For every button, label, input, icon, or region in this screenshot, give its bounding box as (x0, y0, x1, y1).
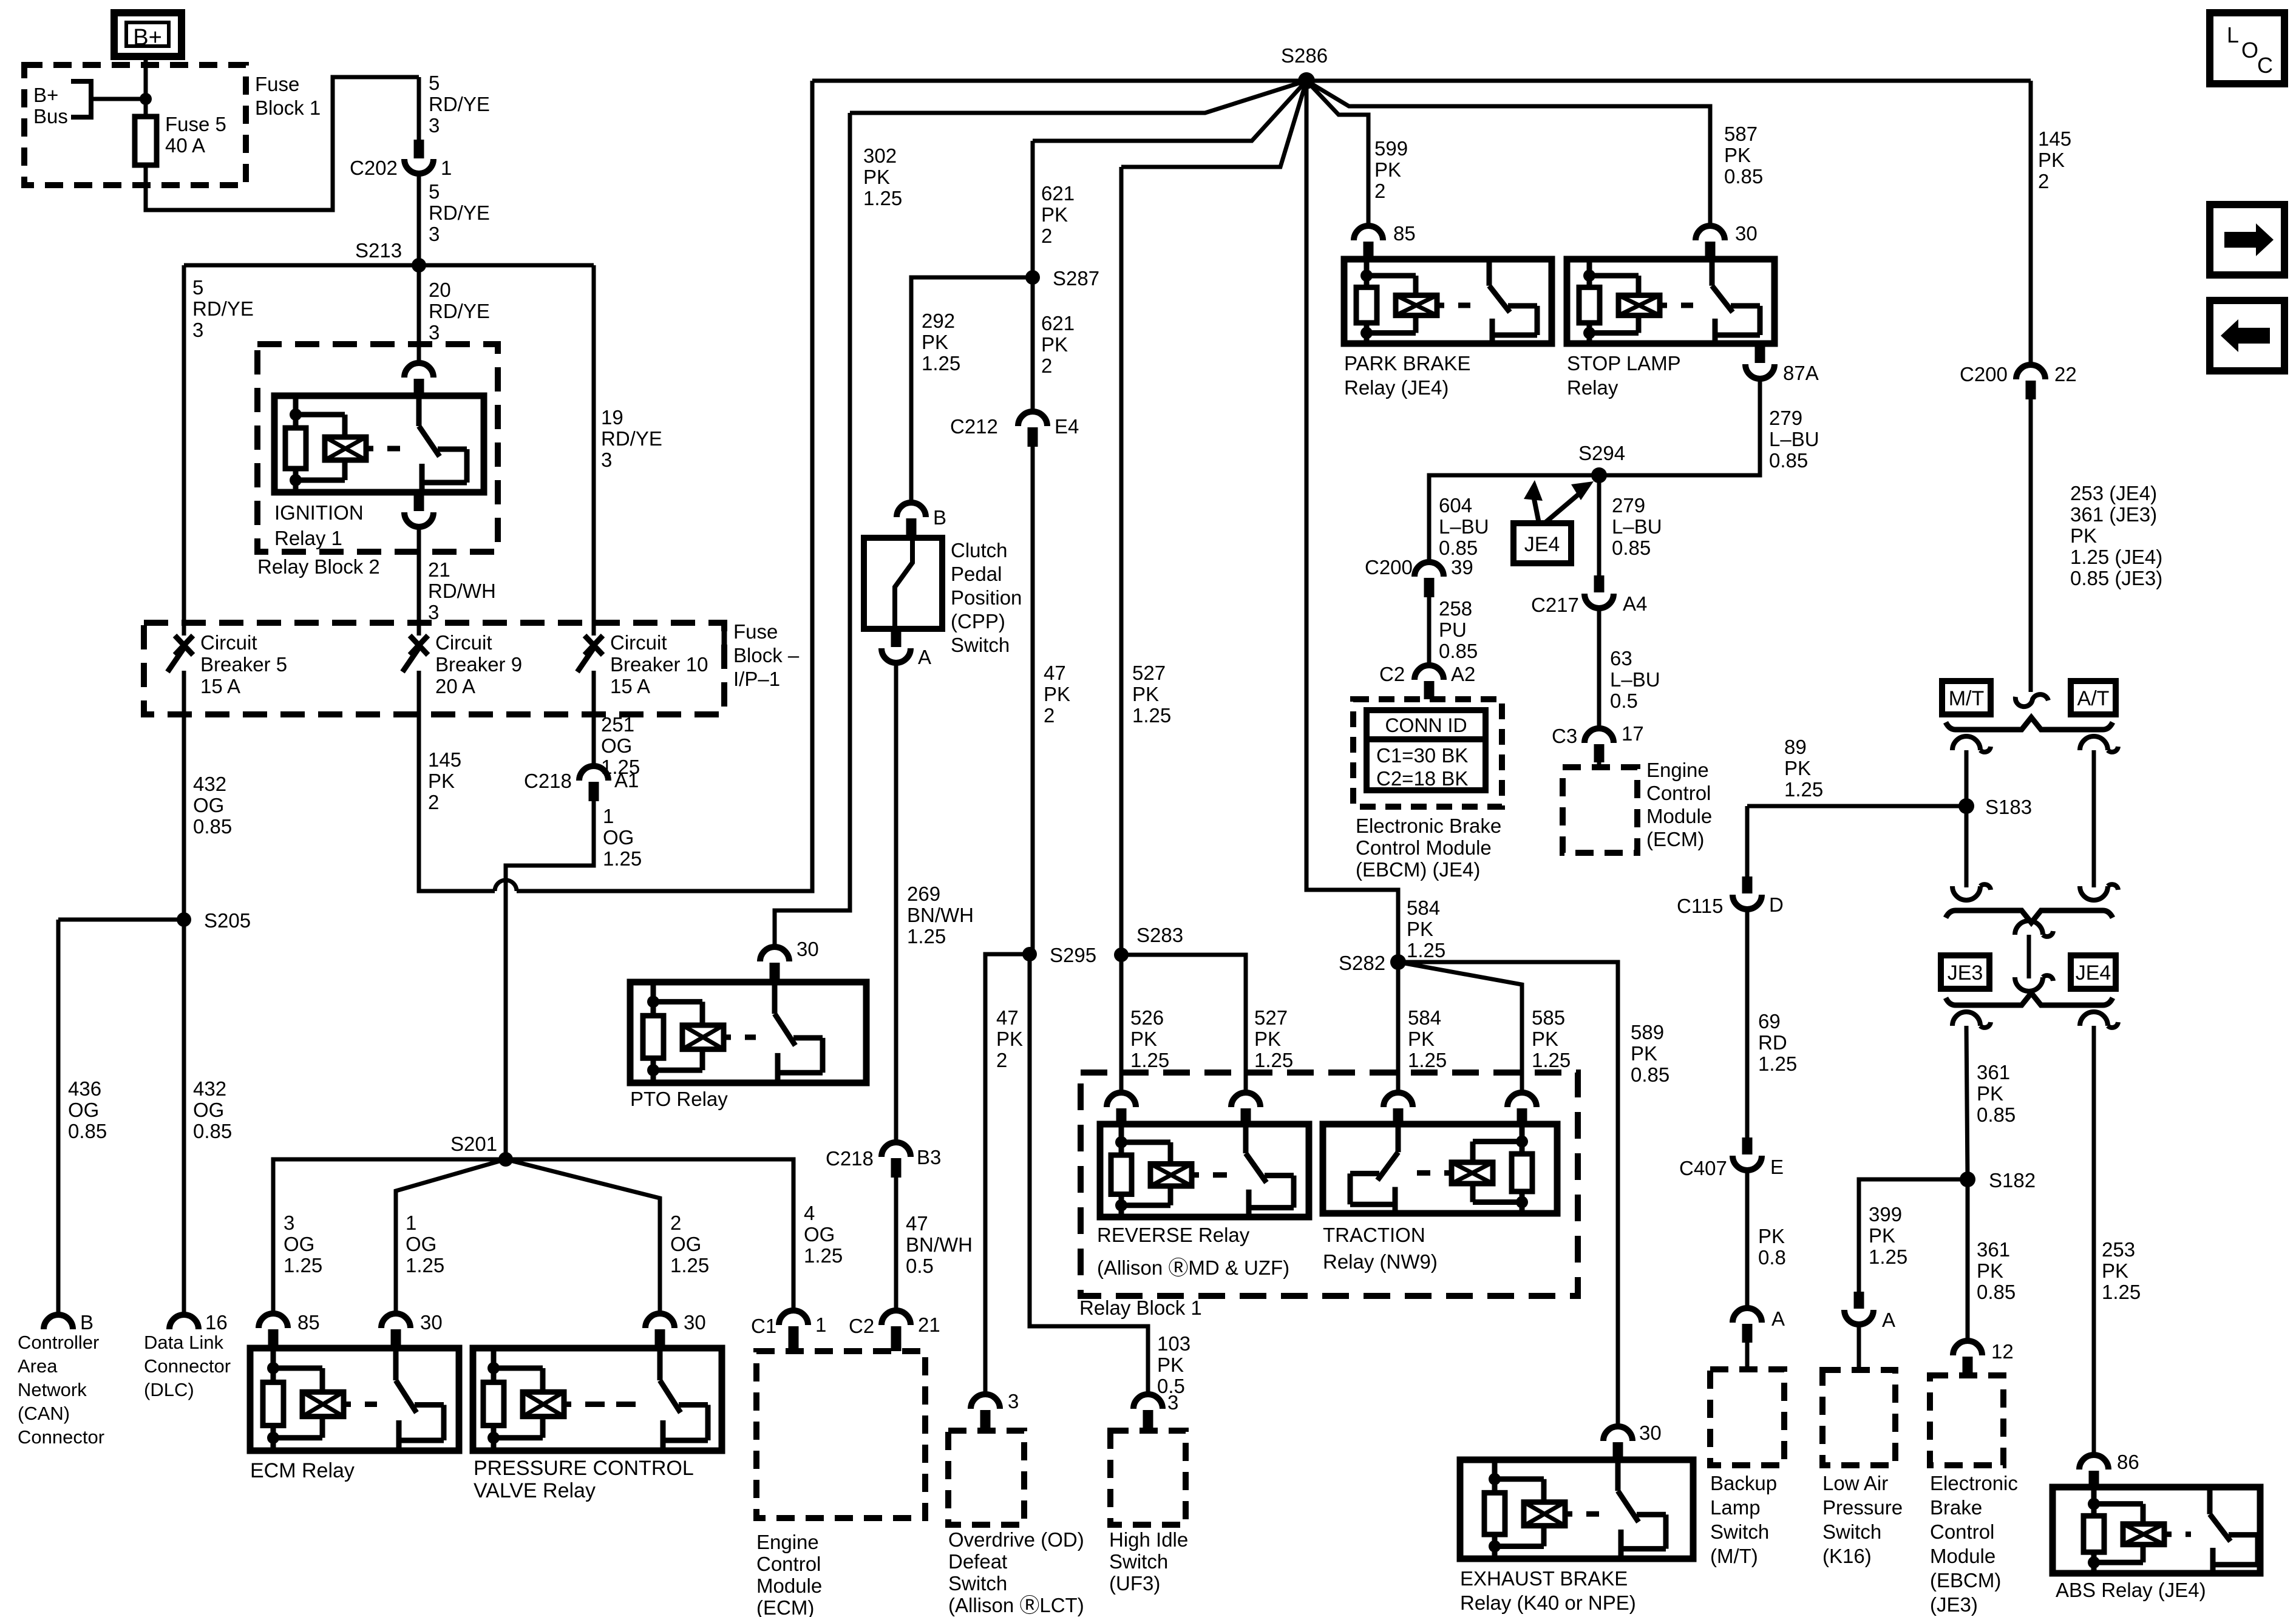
svg-text:Breaker 9: Breaker 9 (435, 653, 522, 676)
svg-text:63: 63 (1610, 647, 1632, 670)
svg-text:PK: PK (1254, 1028, 1281, 1050)
svg-text:1: 1 (406, 1212, 416, 1234)
svg-text:Switch: Switch (948, 1572, 1007, 1595)
wire ignition to CB9 (417, 529, 421, 636)
circuit breaker CB5 (168, 631, 287, 697)
svg-text:PK: PK (1132, 683, 1159, 705)
connector CPP pin A (881, 629, 931, 668)
svg-text:2: 2 (996, 1049, 1007, 1071)
wire C200 22 down (2029, 399, 2033, 692)
node S182 (1960, 1169, 2036, 1192)
connector C2 pin A2 (1379, 663, 1475, 699)
label Backup Lamp Switch (M/T) (1710, 1472, 1777, 1567)
label 621 PK 2 (upper) (1041, 182, 1075, 247)
svg-text:PK: PK (1041, 203, 1068, 226)
connector PCV relay pin 30 (645, 1311, 706, 1348)
svg-text:OG: OG (603, 826, 634, 849)
svg-text:30: 30 (684, 1311, 706, 1334)
svg-text:E: E (1770, 1156, 1784, 1178)
svg-text:47: 47 (996, 1006, 1019, 1029)
svg-text:3: 3 (284, 1212, 294, 1234)
connector C217 pin A4 (1531, 475, 1647, 616)
svg-text:PK: PK (1724, 144, 1751, 166)
legend right arrow box (2210, 205, 2284, 275)
svg-text:Fuse: Fuse (255, 73, 299, 95)
wire low air down (1857, 1326, 1861, 1370)
svg-text:1.25: 1.25 (406, 1254, 444, 1276)
label JE4 box with arrows (1513, 480, 1594, 563)
svg-text:L–BU: L–BU (1610, 668, 1660, 691)
svg-text:C200: C200 (1960, 363, 2008, 385)
svg-text:1.25: 1.25 (1132, 704, 1171, 727)
svg-text:L–BU: L–BU (1769, 428, 1819, 450)
svg-text:High Idle: High Idle (1109, 1528, 1188, 1551)
svg-text:0.85 (JE3): 0.85 (JE3) (2070, 567, 2162, 589)
svg-text:2: 2 (1374, 180, 1385, 202)
label 527 PK 1.25 (upper) (1132, 662, 1171, 727)
svg-text:C407: C407 (1679, 1157, 1727, 1179)
circuit breaker CB10 (577, 631, 708, 697)
svg-text:A: A (918, 646, 931, 668)
svg-text:(Allison ⓇMD & UZF): (Allison ⓇMD & UZF) (1097, 1256, 1289, 1279)
svg-text:361: 361 (1977, 1238, 2010, 1261)
svg-text:PARK BRAKE: PARK BRAKE (1344, 352, 1470, 375)
label STOP LAMP Relay (1567, 352, 1681, 399)
svg-text:OG: OG (601, 734, 632, 757)
label 1 OG 1.25 (603, 805, 642, 870)
label REVERSE Relay (Allison MD & UZF) (1097, 1224, 1289, 1279)
svg-text:RD/YE: RD/YE (429, 300, 490, 322)
svg-text:Relay (K40 or NPE): Relay (K40 or NPE) (1460, 1592, 1636, 1614)
svg-text:IGNITION: IGNITION (274, 501, 364, 524)
node S205 (177, 909, 251, 932)
wire C218A1 to S201 (506, 801, 594, 1157)
connector EBCM pin 12 (1953, 1340, 2014, 1375)
svg-text:ABS Relay (JE4): ABS Relay (JE4) (2056, 1579, 2206, 1601)
svg-text:145: 145 (2038, 127, 2071, 150)
wire S287 down to C212 (1031, 277, 1035, 412)
svg-text:Module: Module (1930, 1545, 1995, 1567)
svg-text:Brake: Brake (1930, 1496, 1982, 1519)
wire CPP A to C218 B3 (894, 664, 898, 1142)
svg-text:1.25: 1.25 (804, 1244, 843, 1267)
wire 87A to S294 (1599, 380, 1760, 475)
svg-text:OG: OG (68, 1099, 99, 1121)
connector low air pin A (1844, 1292, 1895, 1331)
label Controller Area Network (CAN) Connector (18, 1332, 104, 1448)
connector DLC pin 16 (169, 1311, 228, 1334)
label Low Air Pressure Switch (K16) (1822, 1472, 1903, 1567)
label 584 PK 1.25 (lower) (1408, 1006, 1447, 1071)
svg-text:M/T: M/T (1949, 687, 1985, 710)
svg-text:1.25: 1.25 (2102, 1281, 2141, 1303)
svg-text:15 A: 15 A (200, 675, 240, 697)
label 399 PK 1.25 (1869, 1203, 1907, 1268)
svg-text:39: 39 (1451, 556, 1473, 578)
svg-text:(ECM): (ECM) (1646, 828, 1704, 850)
connector park brake pin 85 (1354, 222, 1416, 259)
wire S283 down 526 PK (1119, 955, 1124, 1093)
svg-text:30: 30 (420, 1311, 443, 1334)
wire 89 PK S183 to C115 (1747, 806, 1966, 876)
label 4 OG 1.25 (804, 1202, 843, 1267)
svg-text:BN/WH: BN/WH (906, 1233, 973, 1256)
connector CAN pin B (44, 1311, 93, 1334)
svg-text:1.25: 1.25 (603, 847, 642, 870)
fuse block 1 dashed box (24, 65, 246, 185)
label 279 L-BU 0.85 (S294) (1612, 494, 1662, 559)
label 302 PK 1.25 (863, 144, 902, 209)
svg-text:PK: PK (922, 331, 948, 353)
svg-text:Block 1: Block 1 (255, 97, 321, 119)
svg-text:4: 4 (804, 1202, 815, 1224)
svg-text:2: 2 (2038, 170, 2049, 192)
svg-text:PK: PK (1408, 1028, 1435, 1050)
label 103 PK 0.5 3 (1157, 1332, 1190, 1414)
brace under JE3 JE4 (1946, 993, 2113, 1005)
connector backup lamp pin A (1733, 1307, 1785, 1343)
svg-text:361 (JE3): 361 (JE3) (2070, 503, 2157, 526)
svg-text:Overdrive (OD): Overdrive (OD) (948, 1528, 1084, 1551)
svg-text:Controller: Controller (18, 1332, 99, 1353)
label 47 BN/WH 0.5 (906, 1212, 973, 1277)
svg-text:Relay (NW9): Relay (NW9) (1323, 1250, 1438, 1273)
svg-text:2: 2 (1041, 225, 1052, 247)
svg-text:621: 621 (1041, 182, 1075, 205)
svg-text:A: A (1771, 1307, 1785, 1330)
svg-text:Module: Module (1646, 805, 1712, 827)
connector exhaust brake pin 30 (1603, 1422, 1662, 1460)
svg-text:PK: PK (1407, 918, 1433, 940)
svg-text:399: 399 (1869, 1203, 1902, 1225)
svg-text:PK: PK (1130, 1028, 1157, 1050)
label Relay Block 2 (257, 555, 380, 578)
component ECM dashed box (left) (756, 1351, 925, 1518)
svg-text:2: 2 (1041, 354, 1052, 377)
svg-text:O: O (2241, 38, 2258, 63)
wire MT column (1952, 736, 1991, 900)
svg-text:Pressure: Pressure (1822, 1496, 1903, 1519)
wire C212 to S295 (1031, 447, 1035, 954)
wire C407 to backup A (1745, 1171, 1750, 1308)
svg-text:B: B (933, 506, 946, 529)
label 361 PK 0.85 (upper) (1977, 1061, 2016, 1126)
svg-text:0.85: 0.85 (193, 815, 232, 838)
svg-text:PTO Relay: PTO Relay (630, 1088, 728, 1110)
svg-text:21: 21 (428, 558, 450, 581)
svg-text:Relay Block 2: Relay Block 2 (257, 555, 380, 578)
wire S182 left to low air (1859, 1179, 1968, 1292)
label 1 OG 1.25 (S201) (406, 1212, 444, 1276)
label Engine Control Module (ECM) left (756, 1531, 822, 1617)
label JE4 box (right) (2071, 955, 2116, 989)
label A/T box (2071, 681, 2116, 714)
wire CB5 to S205 (182, 671, 186, 920)
svg-text:A1: A1 (614, 769, 639, 792)
label 258 PU 0.85 (1439, 597, 1478, 662)
svg-text:1: 1 (441, 157, 452, 179)
connector traction switch pin (1384, 1093, 1413, 1124)
svg-text:C218: C218 (524, 770, 572, 792)
component Backup Lamp Switch box (1710, 1369, 1784, 1465)
svg-text:0.85: 0.85 (1977, 1103, 2016, 1126)
label 585 PK 1.25 (1532, 1006, 1571, 1071)
svg-text:CONN ID: CONN ID (1385, 714, 1467, 736)
node S294 (1578, 442, 1625, 483)
wire C200 39 to C2 A2 (1427, 597, 1432, 665)
svg-text:RD/YE: RD/YE (429, 93, 490, 115)
svg-text:292: 292 (922, 310, 955, 332)
svg-text:Switch: Switch (1109, 1550, 1168, 1573)
svg-text:0.5: 0.5 (1610, 690, 1638, 712)
svg-text:3: 3 (429, 321, 440, 344)
svg-text:JE4: JE4 (1524, 533, 1560, 556)
label 19 RD/YE 3 (601, 406, 662, 471)
svg-text:3: 3 (1167, 1391, 1178, 1414)
svg-text:Circuit: Circuit (200, 631, 257, 654)
svg-text:20 A: 20 A (435, 675, 475, 697)
svg-text:1.25: 1.25 (1532, 1049, 1571, 1071)
label 47 PK 2 (lower) (996, 1006, 1023, 1071)
svg-text:0.85: 0.85 (1977, 1281, 2016, 1303)
label 69 RD 1.25 (1758, 1010, 1797, 1075)
label TRACTION Relay (NW9) (1323, 1224, 1438, 1273)
svg-text:OG: OG (193, 1099, 224, 1121)
wire 302 PK to PTO relay (775, 81, 1306, 948)
label Data Link Connector (DLC) (144, 1332, 231, 1400)
wire fuse to C202 run (146, 77, 419, 210)
component High Idle Switch box (1110, 1431, 1186, 1525)
wire S213 center down to relay (417, 265, 421, 363)
svg-text:Lamp: Lamp (1710, 1496, 1761, 1519)
svg-text:D: D (1769, 893, 1784, 916)
wire S286 down to EBCM corner (1306, 81, 1398, 962)
svg-text:0.85: 0.85 (193, 1120, 232, 1142)
wire into backup box (1745, 1343, 1750, 1369)
svg-text:S201: S201 (450, 1133, 497, 1155)
label 145 PK 2 (left) (428, 748, 461, 813)
svg-text:Clutch: Clutch (951, 539, 1008, 561)
svg-text:3: 3 (601, 449, 612, 471)
wire C202 to S213 (417, 172, 421, 265)
label 5 RD/YE 3 (mid) (429, 180, 490, 245)
svg-text:S286: S286 (1281, 44, 1328, 67)
relay PARK BRAKE Relay (1344, 259, 1552, 344)
svg-text:Fuse: Fuse (733, 620, 778, 643)
connector stop lamp pin 87A (1745, 344, 1819, 384)
svg-text:19: 19 (601, 406, 623, 429)
svg-text:L–BU: L–BU (1612, 515, 1662, 538)
svg-text:PK: PK (2038, 149, 2065, 171)
svg-text:C1=30 BK: C1=30 BK (1376, 744, 1468, 767)
svg-text:PK: PK (863, 166, 890, 188)
svg-text:PK: PK (1784, 757, 1811, 779)
svg-text:S294: S294 (1578, 442, 1625, 464)
svg-text:PRESSURE CONTROL: PRESSURE CONTROL (474, 1457, 694, 1480)
svg-text:3: 3 (429, 223, 440, 245)
wire C217 to C3 (1597, 609, 1601, 728)
wire top bus (812, 79, 2031, 83)
svg-text:S287: S287 (1053, 267, 1099, 290)
svg-text:Defeat: Defeat (948, 1550, 1007, 1573)
label 63 L-BU 0.5 (1610, 647, 1660, 712)
svg-text:REVERSE Relay: REVERSE Relay (1097, 1224, 1250, 1246)
svg-text:2: 2 (428, 791, 439, 813)
svg-text:(ECM): (ECM) (756, 1596, 814, 1617)
svg-text:85: 85 (1393, 222, 1416, 245)
svg-text:S183: S183 (1985, 796, 2032, 818)
svg-text:0.85: 0.85 (1612, 537, 1651, 559)
svg-text:Engine: Engine (756, 1531, 819, 1553)
svg-text:(JE3): (JE3) (1930, 1593, 1978, 1616)
node S287 (1025, 267, 1099, 290)
label 621 PK 2 (lower) (1041, 312, 1075, 377)
svg-text:Backup: Backup (1710, 1472, 1777, 1494)
brace above JE3 JE4 (1946, 910, 2113, 923)
svg-text:C202: C202 (350, 157, 398, 179)
wire AT column (2080, 736, 2118, 900)
label 599 PK 2 (1374, 137, 1408, 202)
wire C218 B3 to C2 21 (894, 1178, 898, 1310)
label 526 PK 1.25 (1130, 1006, 1169, 1071)
svg-text:PK: PK (1157, 1354, 1184, 1376)
svg-text:1: 1 (815, 1314, 826, 1336)
svg-text:30: 30 (796, 938, 819, 960)
connector C1 pin 1 (751, 1310, 826, 1351)
svg-text:Bus: Bus (33, 105, 68, 127)
svg-text:1.25: 1.25 (670, 1254, 709, 1276)
svg-text:JE3: JE3 (1948, 961, 1983, 985)
svg-text:RD/WH: RD/WH (428, 580, 496, 602)
svg-text:0.85: 0.85 (1724, 165, 1763, 188)
brace under MT AT (1946, 717, 2113, 730)
svg-text:621: 621 (1041, 312, 1075, 334)
svg-text:5: 5 (192, 276, 203, 299)
svg-text:OG: OG (804, 1223, 835, 1246)
connector reverse relay coil pin (1107, 1093, 1136, 1124)
svg-text:0.85: 0.85 (1631, 1063, 1669, 1086)
svg-text:87A: 87A (1783, 362, 1819, 384)
svg-text:Engine: Engine (1646, 759, 1709, 781)
relay REVERSE Relay (1100, 1124, 1309, 1217)
relay TRACTION Relay (1323, 1124, 1557, 1213)
svg-text:3: 3 (192, 319, 203, 341)
wire S287 left branch 292 PK (911, 277, 1033, 503)
svg-text:Pedal: Pedal (951, 563, 1002, 585)
svg-text:0.8: 0.8 (1758, 1246, 1786, 1269)
svg-text:Low Air: Low Air (1822, 1472, 1888, 1494)
svg-text:1.25: 1.25 (1130, 1049, 1169, 1071)
label 432 OG 0.85 (lower) (193, 1077, 232, 1142)
relay EXHAUST BRAKE Relay (1460, 1460, 1693, 1559)
svg-text:47: 47 (906, 1212, 928, 1235)
connector C115 pin D (1677, 876, 1784, 917)
connector ECM relay pin 85 (259, 1311, 320, 1348)
svg-text:C2=18 BK: C2=18 BK (1376, 767, 1468, 790)
svg-text:PK: PK (1374, 158, 1401, 181)
label 251 OG 1.25 (601, 713, 640, 778)
label 584 PK 1.25 (upper) (1407, 897, 1445, 961)
wire S182 down (1966, 1179, 1970, 1341)
wire S295 left branch 47 PK (985, 954, 1030, 1394)
svg-text:269: 269 (907, 883, 940, 905)
svg-text:B3: B3 (917, 1146, 941, 1168)
svg-text:1.25: 1.25 (922, 352, 960, 375)
label 20 RD/YE 3 (429, 279, 490, 344)
connector C202 pin 1 (350, 77, 452, 179)
svg-text:L: L (2227, 22, 2239, 47)
component CPP switch box (864, 538, 942, 629)
label M/T box (1942, 681, 1991, 714)
svg-text:PK: PK (1869, 1224, 1895, 1247)
svg-text:(Allison ⓇLCT): (Allison ⓇLCT) (948, 1594, 1084, 1616)
svg-text:15 A: 15 A (610, 675, 650, 697)
wire 587 PK from S286 (1306, 81, 1710, 227)
svg-text:47: 47 (1044, 662, 1066, 684)
svg-text:Relay 1: Relay 1 (274, 527, 342, 549)
svg-text:(CPP): (CPP) (951, 610, 1005, 632)
svg-text:604: 604 (1439, 494, 1472, 517)
svg-text:86: 86 (2117, 1451, 2139, 1473)
wire S282 to exhaust brake (1398, 962, 1618, 1426)
svg-text:JE4: JE4 (2076, 961, 2111, 985)
label PTO Relay (630, 1088, 728, 1110)
svg-text:584: 584 (1407, 897, 1440, 919)
svg-text:599: 599 (1374, 137, 1408, 160)
svg-text:PK: PK (1631, 1042, 1657, 1065)
svg-text:(K16): (K16) (1822, 1545, 1872, 1567)
relay block 1 dashed box (1081, 1073, 1578, 1296)
label PK 0.8 (1758, 1225, 1786, 1269)
svg-text:526: 526 (1130, 1006, 1164, 1029)
label 604 L-BU 0.85 (1439, 494, 1489, 559)
svg-text:1.25: 1.25 (1254, 1049, 1293, 1071)
svg-text:C3: C3 (1552, 725, 1577, 747)
connector C3 pin 17 (1552, 722, 1644, 762)
connector C200 pin 39 (1365, 556, 1473, 597)
node S201 (450, 1133, 513, 1167)
svg-text:17: 17 (1622, 722, 1644, 745)
relay ECM Relay (250, 1348, 459, 1451)
label 145 PK 2 (right) (2038, 127, 2071, 192)
wire B+ down (144, 56, 148, 117)
label High Idle Switch (UF3) (1109, 1528, 1188, 1595)
svg-text:(CAN): (CAN) (18, 1403, 70, 1424)
fuse block I/P-1 dashed box (144, 623, 724, 714)
wire S205 down (182, 920, 186, 1315)
connector ignition relay bottom pin (404, 492, 433, 527)
connector ABS pin 86 (2079, 1451, 2139, 1487)
wire S294 left to C200 39 (1429, 475, 1599, 562)
label 253 PK 1.25 (2102, 1238, 2141, 1303)
svg-text:C2: C2 (1379, 663, 1405, 685)
label Electronic Brake Control Module (EBCM) (JE3) (1930, 1472, 2018, 1616)
svg-text:302: 302 (863, 144, 897, 167)
svg-text:103: 103 (1157, 1332, 1190, 1355)
svg-text:1.25 (JE4): 1.25 (JE4) (2070, 546, 2162, 568)
svg-text:585: 585 (1532, 1006, 1565, 1029)
svg-text:Data Link: Data Link (144, 1332, 223, 1353)
component CONN ID box (1353, 699, 1502, 807)
svg-text:Control: Control (1646, 782, 1711, 804)
svg-text:(UF3): (UF3) (1109, 1572, 1160, 1595)
svg-text:85: 85 (297, 1311, 320, 1334)
wire B+ bus to fuse node (91, 97, 146, 101)
svg-text:Module: Module (756, 1575, 822, 1597)
svg-text:OG: OG (284, 1233, 314, 1255)
connector C212 pin E4 (950, 412, 1079, 447)
svg-text:RD/YE: RD/YE (601, 427, 662, 450)
